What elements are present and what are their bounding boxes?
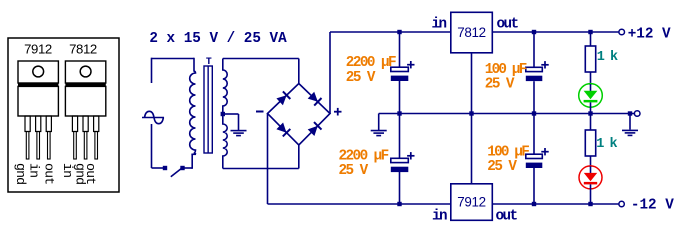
- label out U2: [496, 209, 518, 225]
- capacitor C4 100uF: [526, 148, 549, 168]
- capacitor C3 lower wire: [533, 81, 535, 113]
- svg-text:25 V: 25 V: [339, 163, 369, 179]
- wire 0V ground drop: [629, 114, 631, 130]
- wire switch to primary: [185, 154, 197, 169]
- capacitor C4 lower wire: [533, 167, 535, 204]
- capacitor C1 2200uF wire: [399, 32, 401, 68]
- label C2 value: [339, 148, 389, 178]
- pin label out of 7912 TO-220: [42, 163, 57, 184]
- label -12 V: [631, 198, 674, 214]
- pin label gnd of 7812 TO-220: [73, 163, 88, 184]
- wire center tap: [223, 114, 239, 130]
- capacitor C3 100uF: [526, 61, 549, 81]
- node junction C2 mid: [397, 111, 401, 115]
- node junction C3 top: [532, 30, 536, 34]
- label minus at bridge: [256, 111, 264, 113]
- terminal +12V: [619, 29, 625, 35]
- label out U1: [497, 17, 519, 33]
- resistor R2 1k: [585, 130, 595, 156]
- svg-text:in: in: [27, 163, 42, 177]
- ground mid rail left: [371, 131, 387, 136]
- label T: [206, 56, 212, 67]
- pin label out of 7812 TO-220: [83, 163, 98, 184]
- diode D1 (minus to top): [276, 91, 290, 105]
- label C3 value: [485, 62, 527, 93]
- wire mains left upper: [151, 58, 153, 83]
- svg-text:7812: 7812: [69, 42, 97, 57]
- label 7812 (right package): [69, 42, 97, 57]
- label plus at bridge: [334, 108, 342, 116]
- svg-text:7812: 7812: [457, 25, 486, 40]
- transformer core: [204, 66, 212, 153]
- svg-text:7912: 7912: [457, 195, 486, 210]
- resistor R1 1k: [585, 46, 595, 72]
- svg-text:2200 µF: 2200 µF: [346, 55, 396, 71]
- LED D6 red: [579, 166, 602, 204]
- transformer secondary winding: [223, 59, 227, 169]
- wire to switch contact a: [152, 167, 164, 169]
- capacitor C2 2200uF wire: [399, 114, 401, 159]
- svg-text:2 x 15 V / 25 VA: 2 x 15 V / 25 VA: [149, 31, 287, 47]
- label in U1: [431, 17, 446, 33]
- terminal -12V: [619, 201, 624, 206]
- wire bridge plus up: [329, 32, 331, 114]
- node junction C4 bottom: [532, 202, 536, 206]
- capacitor C1 lower wire: [399, 81, 401, 114]
- wire secondary top to bridge: [223, 59, 299, 85]
- capacitor C3 100uF wire: [533, 32, 535, 68]
- AC mains sine symbol: [142, 111, 164, 123]
- 7812 TO-220 package: [65, 61, 105, 159]
- svg-text:out: out: [42, 163, 57, 184]
- LED D5 green: [579, 84, 603, 114]
- node junction C2 bottom: [397, 202, 401, 206]
- label U1 7812: [457, 25, 486, 40]
- wire R2 top: [590, 114, 592, 131]
- ground 0V terminal: [622, 130, 638, 135]
- node junction C1 top: [397, 30, 401, 34]
- svg-text:in: in: [60, 163, 75, 177]
- wire 7812 out rail: [492, 31, 619, 33]
- label C1 value: [346, 55, 396, 86]
- svg-text:T: T: [206, 56, 212, 67]
- diode D3 (minus to bottom): [276, 123, 290, 137]
- diode D2 (top to plus): [308, 92, 322, 106]
- svg-text:1 k: 1 k: [596, 137, 617, 152]
- switch S1 contact a: [163, 166, 167, 170]
- 7912 TO-220 package: [18, 61, 58, 159]
- wire mid rail ground drop: [378, 114, 380, 131]
- svg-text:1 k: 1 k: [597, 50, 618, 65]
- node junction terminal 0V: [628, 111, 632, 115]
- label 7912 (left package): [24, 42, 52, 57]
- svg-text:25 V: 25 V: [487, 159, 517, 175]
- transformer primary winding: [190, 58, 196, 155]
- capacitor C4 100uF wire: [533, 114, 535, 155]
- node junction C3/C4 mid: [532, 111, 536, 115]
- wire 7912 out rail: [492, 203, 619, 205]
- node junction LED mid: [588, 111, 592, 115]
- capacitor C2 lower wire: [399, 172, 401, 204]
- pin label in of 7812 TO-220: [60, 163, 75, 177]
- ground center tap: [231, 131, 247, 136]
- wire R1 to LED1: [590, 72, 592, 85]
- pin label gnd of 7912 TO-220: [13, 163, 28, 184]
- terminal 0V: [634, 111, 640, 117]
- svg-text:out: out: [83, 163, 98, 184]
- bridge frame: [268, 84, 331, 146]
- capacitor C1 2200uF: [391, 61, 415, 81]
- svg-text:100 µF: 100 µF: [487, 144, 529, 160]
- label +12 V: [628, 27, 671, 43]
- label U2 7912: [457, 195, 486, 210]
- switch S1 lever: [171, 168, 183, 177]
- svg-text:out: out: [497, 17, 519, 33]
- wire 0V terminal stub: [630, 113, 634, 115]
- svg-text:in: in: [432, 209, 447, 225]
- wire mains top: [152, 58, 195, 60]
- svg-text:25 V: 25 V: [485, 77, 515, 93]
- switch S1 contact b: [180, 166, 184, 170]
- node junction U1 gnd: [469, 111, 473, 115]
- label 2 x 15 V / 25 VA: [149, 31, 287, 47]
- svg-text:7912: 7912: [24, 42, 52, 57]
- svg-text:in: in: [431, 17, 446, 33]
- svg-text:out: out: [496, 209, 518, 225]
- wire bridge minus down: [267, 114, 269, 205]
- svg-text:25 V: 25 V: [346, 70, 376, 86]
- wire mains left lower: [151, 124, 153, 168]
- label in U2: [432, 209, 447, 225]
- node junction LED2 bottom: [588, 202, 592, 206]
- node junction R1 top: [588, 30, 592, 34]
- wire R2 to LED2: [590, 156, 592, 167]
- capacitor C2 2200uF: [391, 152, 415, 172]
- wire mid rail: [379, 113, 630, 115]
- svg-text:+12 V: +12 V: [628, 27, 671, 43]
- wire U1 gnd: [471, 53, 473, 114]
- svg-text:-12 V: -12 V: [631, 198, 674, 214]
- diode D4 (bottom to plus): [308, 122, 322, 136]
- label R1 1 k: [597, 50, 618, 65]
- pin label in of 7912 TO-220: [27, 163, 42, 177]
- wire U2 gnd: [471, 114, 473, 184]
- wire minus rail to 7912: [268, 203, 451, 205]
- node center tap: [221, 112, 225, 116]
- wire secondary bottom to bridge: [223, 145, 299, 169]
- svg-text:gnd: gnd: [13, 163, 28, 184]
- enclosure box for regulator pinouts: [8, 38, 119, 192]
- label C4 value: [487, 144, 529, 175]
- regulator U2 7912 box: [451, 184, 493, 221]
- wire plus rail to 7812: [330, 31, 451, 33]
- regulator U1 7812 box: [451, 12, 493, 53]
- label R2 1 k: [596, 137, 617, 152]
- wire R1 top: [590, 32, 592, 46]
